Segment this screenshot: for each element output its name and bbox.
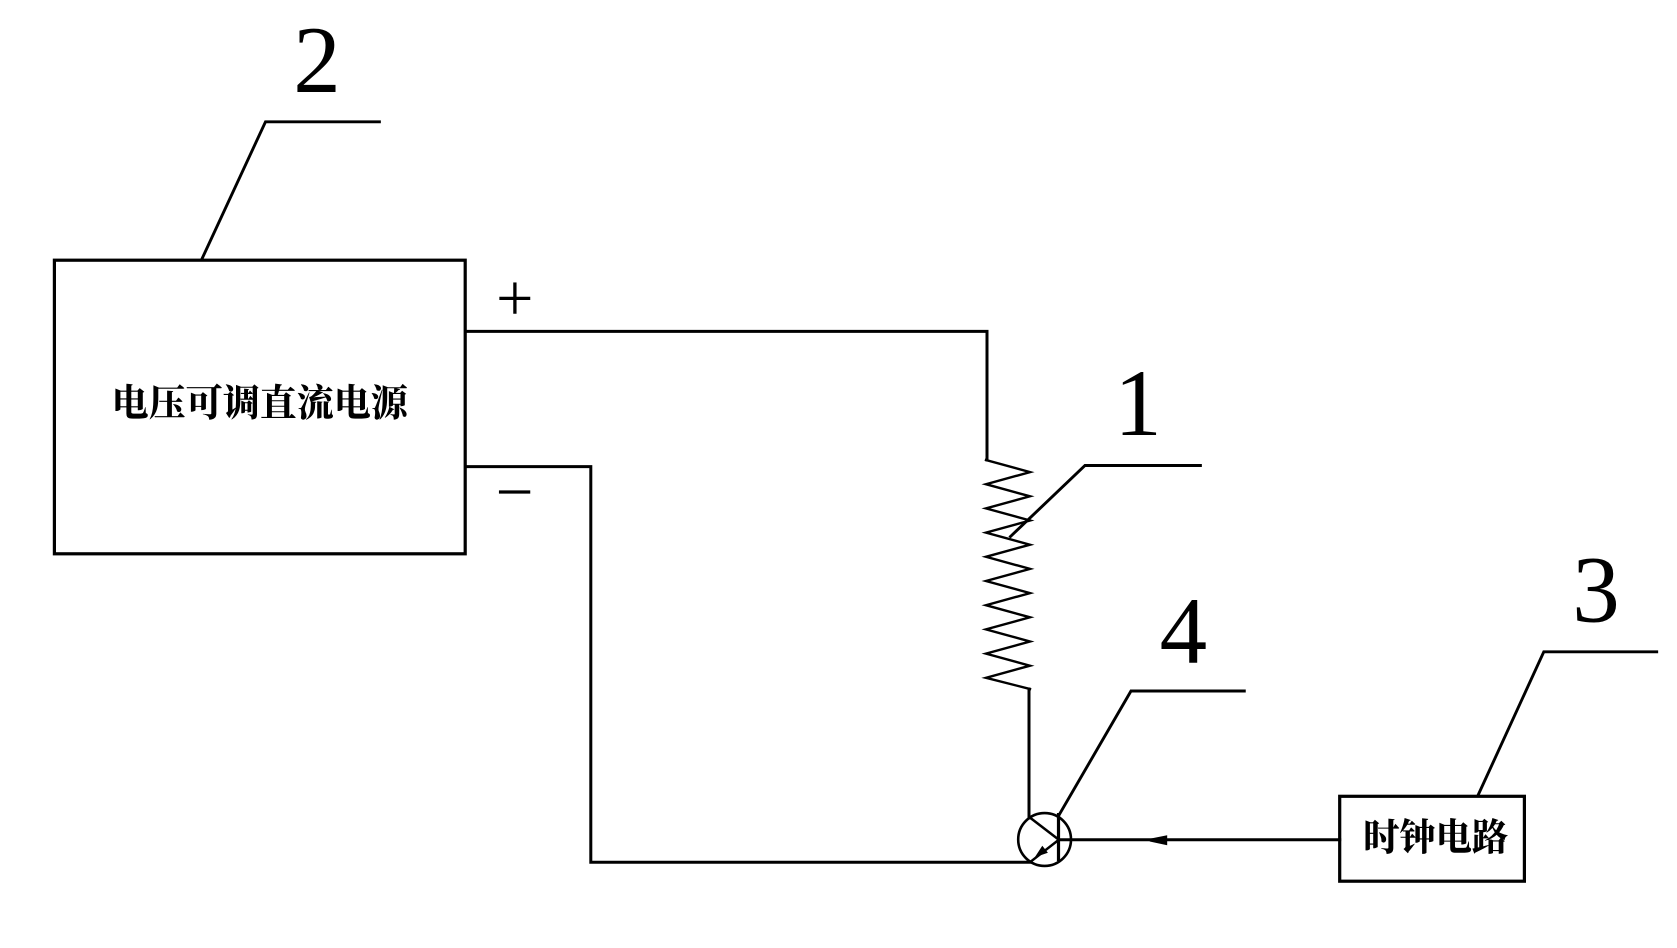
svg-text:4: 4 <box>1160 578 1208 684</box>
svg-text:1: 1 <box>1114 350 1162 456</box>
svg-text:2: 2 <box>293 7 341 113</box>
svg-text:3: 3 <box>1572 537 1620 643</box>
